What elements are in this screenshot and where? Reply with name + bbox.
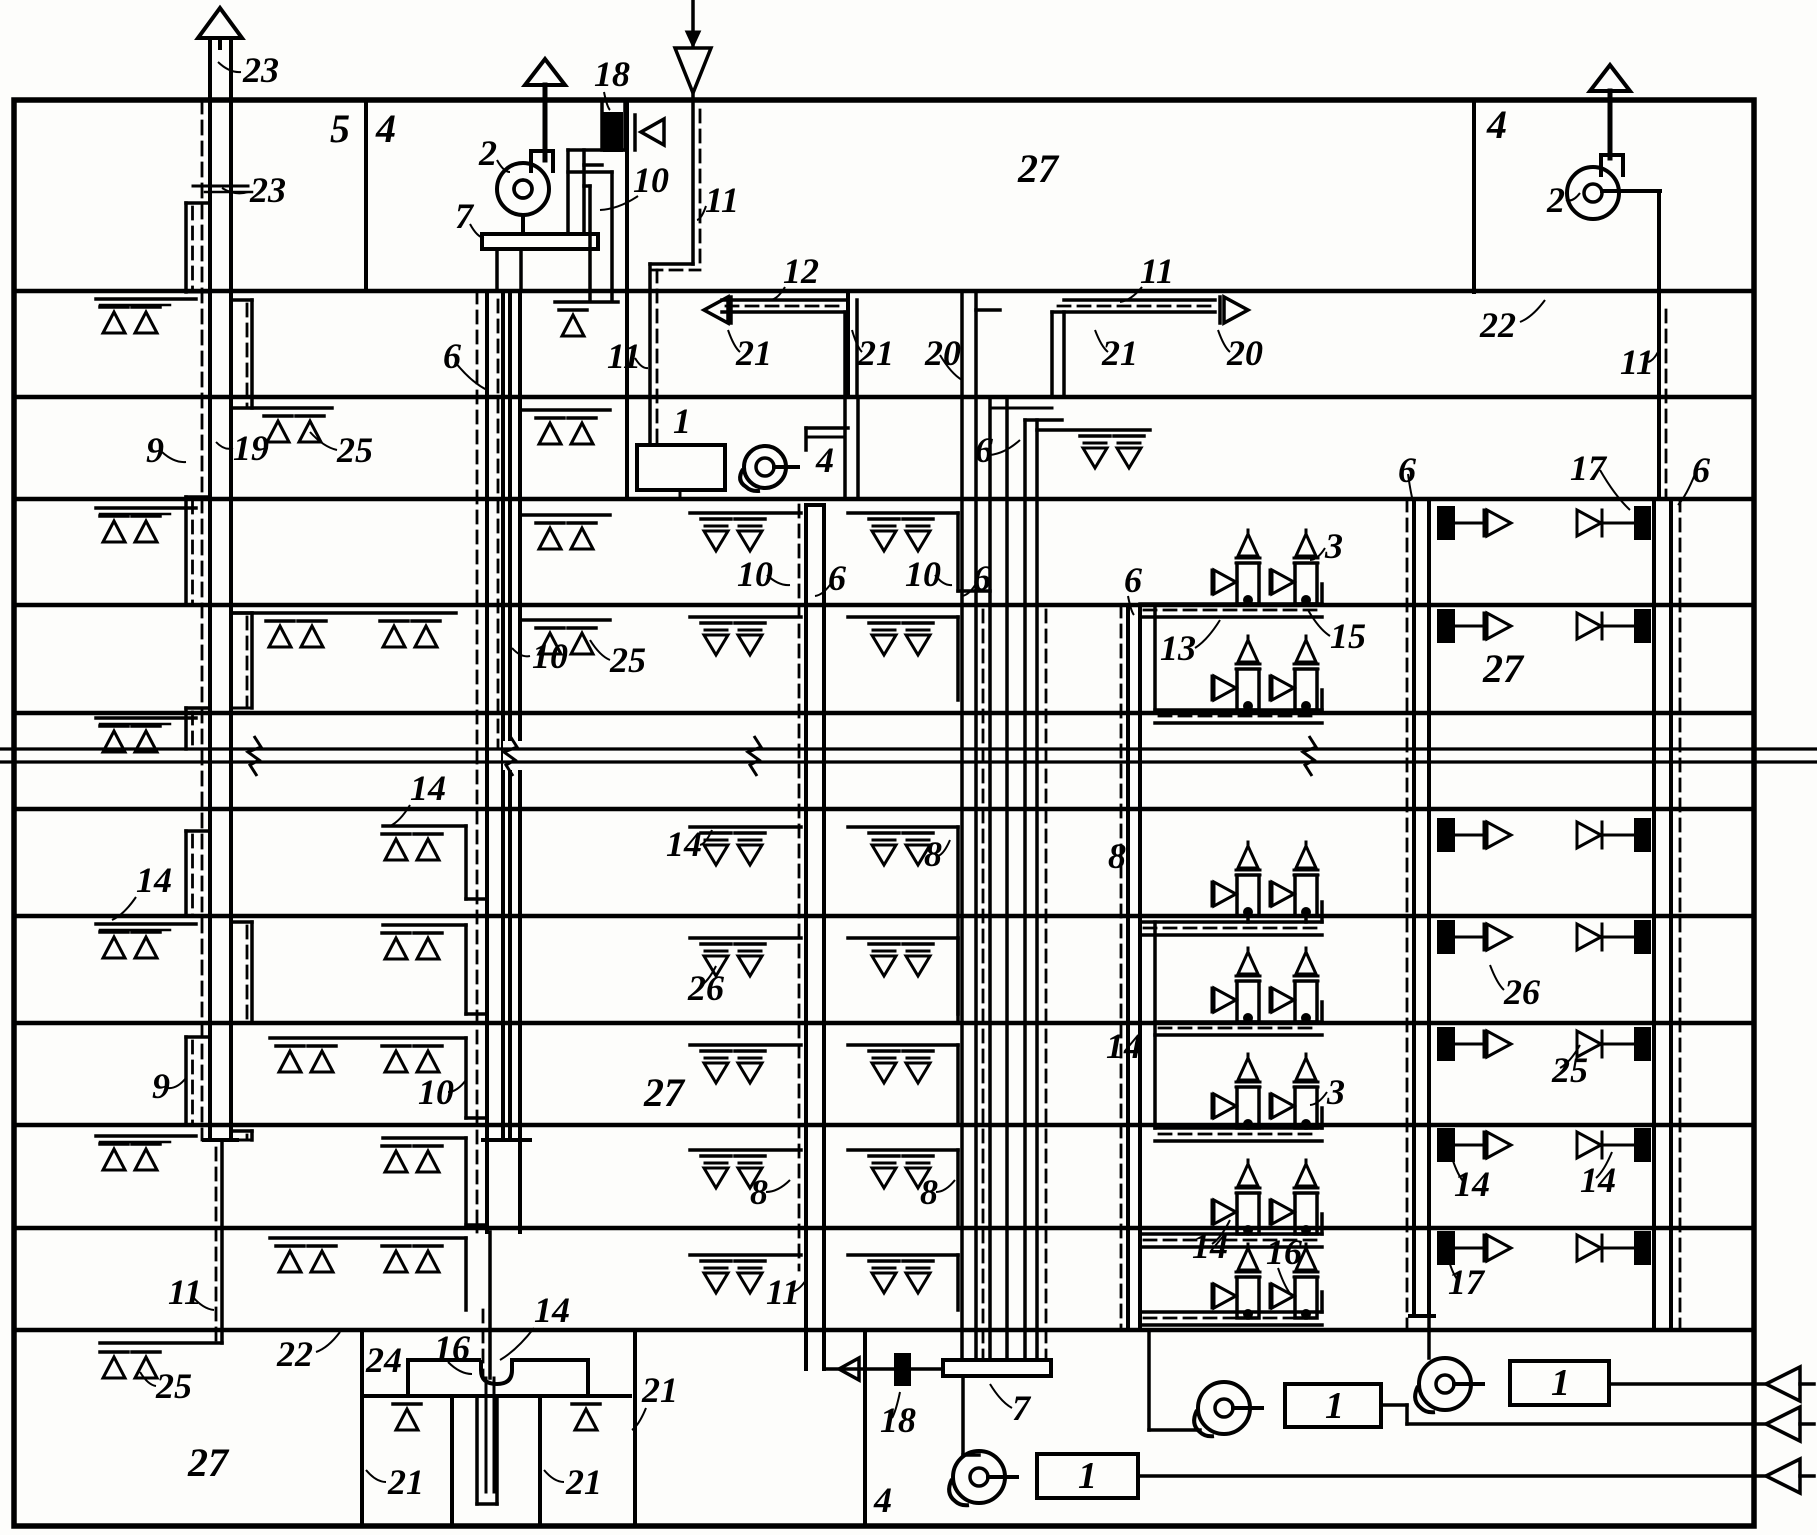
svg-text:14: 14	[136, 860, 172, 900]
svg-text:24: 24	[365, 1340, 402, 1380]
svg-text:4: 4	[1486, 102, 1507, 147]
svg-text:8: 8	[1108, 836, 1126, 876]
svg-text:23: 23	[249, 170, 286, 210]
svg-text:17: 17	[1448, 1262, 1486, 1302]
svg-text:6: 6	[973, 558, 991, 598]
svg-text:25: 25	[336, 430, 373, 470]
svg-text:4: 4	[873, 1480, 892, 1520]
svg-text:27: 27	[1482, 646, 1525, 691]
svg-text:22: 22	[276, 1334, 313, 1374]
svg-text:8: 8	[750, 1172, 768, 1212]
svg-text:21: 21	[565, 1462, 602, 1502]
svg-text:8: 8	[920, 1172, 938, 1212]
svg-text:5: 5	[330, 106, 350, 151]
svg-text:6: 6	[975, 430, 993, 470]
svg-text:17: 17	[1570, 448, 1608, 488]
svg-text:9: 9	[146, 430, 164, 470]
svg-text:11: 11	[168, 1272, 202, 1312]
svg-text:1: 1	[673, 401, 691, 441]
svg-text:10: 10	[737, 554, 773, 594]
svg-text:14: 14	[1580, 1160, 1616, 1200]
svg-text:22: 22	[1479, 305, 1516, 345]
svg-text:26: 26	[687, 968, 724, 1008]
svg-text:26: 26	[1503, 972, 1540, 1012]
svg-text:21: 21	[857, 333, 894, 373]
svg-text:8: 8	[924, 834, 942, 874]
svg-text:11: 11	[607, 336, 641, 376]
svg-text:7: 7	[455, 196, 475, 236]
svg-text:21: 21	[387, 1462, 424, 1502]
svg-text:4: 4	[375, 106, 396, 151]
svg-text:2: 2	[478, 133, 497, 173]
svg-text:6: 6	[443, 336, 461, 376]
svg-text:14: 14	[666, 824, 702, 864]
svg-text:10: 10	[905, 554, 941, 594]
svg-text:11: 11	[766, 1272, 800, 1312]
svg-text:1: 1	[1078, 1455, 1097, 1497]
svg-text:6: 6	[1398, 450, 1416, 490]
svg-text:15: 15	[1330, 616, 1366, 656]
svg-text:2: 2	[1546, 180, 1565, 220]
svg-text:27: 27	[1017, 146, 1060, 191]
svg-text:23: 23	[242, 50, 279, 90]
svg-text:14: 14	[1454, 1164, 1490, 1204]
svg-text:6: 6	[1124, 560, 1142, 600]
svg-text:6: 6	[1692, 450, 1710, 490]
svg-text:12: 12	[783, 251, 819, 291]
svg-text:27: 27	[187, 1440, 230, 1485]
svg-text:6: 6	[828, 558, 846, 598]
svg-text:25: 25	[155, 1366, 192, 1406]
svg-text:13: 13	[1160, 628, 1196, 668]
svg-text:18: 18	[880, 1400, 916, 1440]
svg-text:25: 25	[609, 640, 646, 680]
svg-text:20: 20	[924, 333, 961, 373]
svg-text:18: 18	[594, 54, 630, 94]
svg-text:10: 10	[633, 160, 669, 200]
svg-text:11: 11	[1140, 251, 1174, 291]
svg-text:11: 11	[705, 180, 739, 220]
svg-text:20: 20	[1226, 333, 1263, 373]
svg-text:14: 14	[410, 768, 446, 808]
svg-text:21: 21	[735, 333, 772, 373]
svg-text:25: 25	[1551, 1050, 1588, 1090]
svg-text:1: 1	[1325, 1385, 1344, 1427]
svg-text:10: 10	[532, 636, 568, 676]
svg-text:4: 4	[815, 440, 834, 480]
svg-text:14: 14	[1106, 1026, 1142, 1066]
svg-text:1: 1	[1551, 1362, 1570, 1404]
svg-text:9: 9	[152, 1066, 170, 1106]
svg-text:21: 21	[641, 1370, 678, 1410]
svg-text:21: 21	[1101, 333, 1138, 373]
svg-text:19: 19	[233, 428, 269, 468]
svg-text:16: 16	[1266, 1232, 1302, 1272]
svg-text:14: 14	[534, 1290, 570, 1330]
svg-text:3: 3	[1326, 1072, 1345, 1112]
svg-text:27: 27	[643, 1070, 686, 1115]
svg-text:7: 7	[1012, 1388, 1032, 1428]
svg-text:16: 16	[434, 1328, 470, 1368]
svg-text:3: 3	[1324, 526, 1343, 566]
